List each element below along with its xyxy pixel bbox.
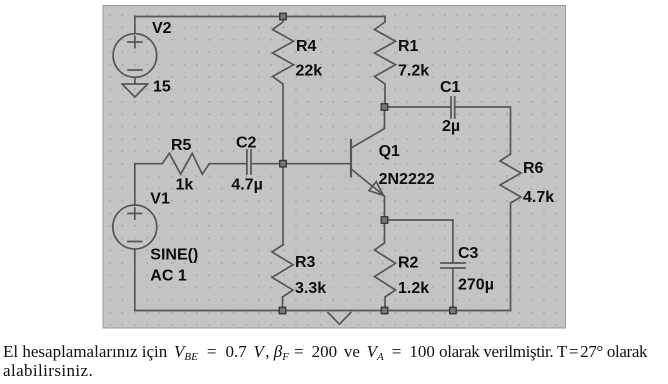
svg-text:4.7µ: 4.7µ [231,177,262,194]
svg-text:SINE(): SINE() [150,247,198,264]
svg-text:2N2222: 2N2222 [379,171,435,188]
svg-text:R5: R5 [171,137,192,154]
svg-text:Q1: Q1 [379,143,400,160]
svg-text:22k: 22k [296,62,323,79]
svg-text:1.2k: 1.2k [398,280,429,297]
svg-text:V2: V2 [152,20,172,37]
svg-text:2µ: 2µ [442,118,460,135]
svg-text:270µ: 270µ [458,277,494,294]
svg-text:R6: R6 [523,160,544,177]
svg-text:C2: C2 [236,134,257,151]
svg-text:4.7k: 4.7k [523,189,554,206]
svg-text:1k: 1k [176,177,194,194]
svg-text:R1: R1 [398,38,419,55]
svg-text:R2: R2 [398,255,419,272]
svg-text:15: 15 [153,79,171,96]
svg-text:C1: C1 [440,79,461,96]
svg-text:AC 1: AC 1 [150,267,187,284]
svg-text:C3: C3 [458,245,479,262]
svg-text:R4: R4 [296,38,317,55]
svg-text:R3: R3 [295,254,316,271]
svg-text:V1: V1 [150,190,170,207]
svg-text:3.3k: 3.3k [295,280,326,297]
svg-text:7.2k: 7.2k [398,63,429,80]
